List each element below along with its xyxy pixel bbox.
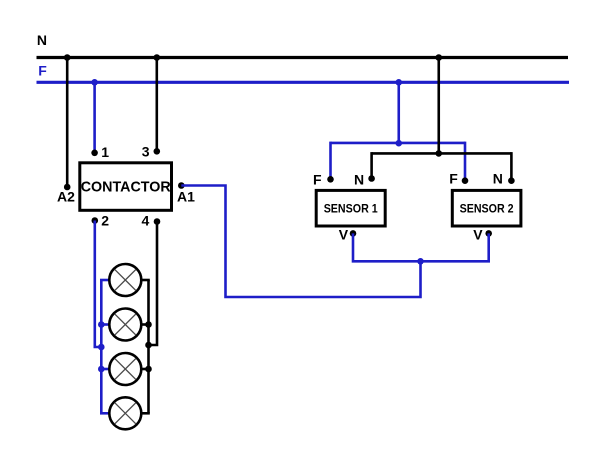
svg-text:A2: A2	[57, 188, 75, 204]
svg-text:4: 4	[142, 212, 150, 228]
svg-text:2: 2	[101, 212, 109, 228]
svg-text:1: 1	[101, 144, 109, 160]
svg-text:N: N	[493, 170, 503, 186]
svg-text:N: N	[37, 32, 47, 48]
svg-text:A1: A1	[177, 188, 195, 204]
svg-text:N: N	[354, 171, 364, 187]
svg-text:SENSOR 2: SENSOR 2	[460, 201, 514, 215]
svg-text:F: F	[38, 62, 47, 78]
svg-text:3: 3	[142, 144, 150, 160]
svg-text:V: V	[473, 227, 483, 243]
svg-text:F: F	[449, 170, 458, 186]
svg-text:SENSOR 1: SENSOR 1	[324, 201, 378, 215]
svg-text:F: F	[313, 171, 322, 187]
svg-text:V: V	[339, 227, 349, 243]
svg-text:CONTACTOR: CONTACTOR	[81, 178, 171, 195]
